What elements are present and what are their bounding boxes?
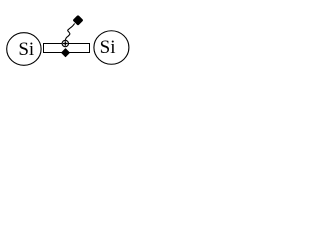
wire squiggle: [65, 24, 74, 40]
wire double-bond rectangle: [44, 44, 90, 53]
charge symbol circled plus: [62, 40, 68, 46]
node filled diamond on bond: [62, 49, 70, 57]
svg-text:Si: Si: [18, 39, 34, 60]
atom circle Si left: [7, 33, 41, 66]
svg-text:Si: Si: [100, 37, 116, 58]
node filled diamond top: [75, 17, 82, 24]
atom circle Si right: [94, 31, 129, 65]
